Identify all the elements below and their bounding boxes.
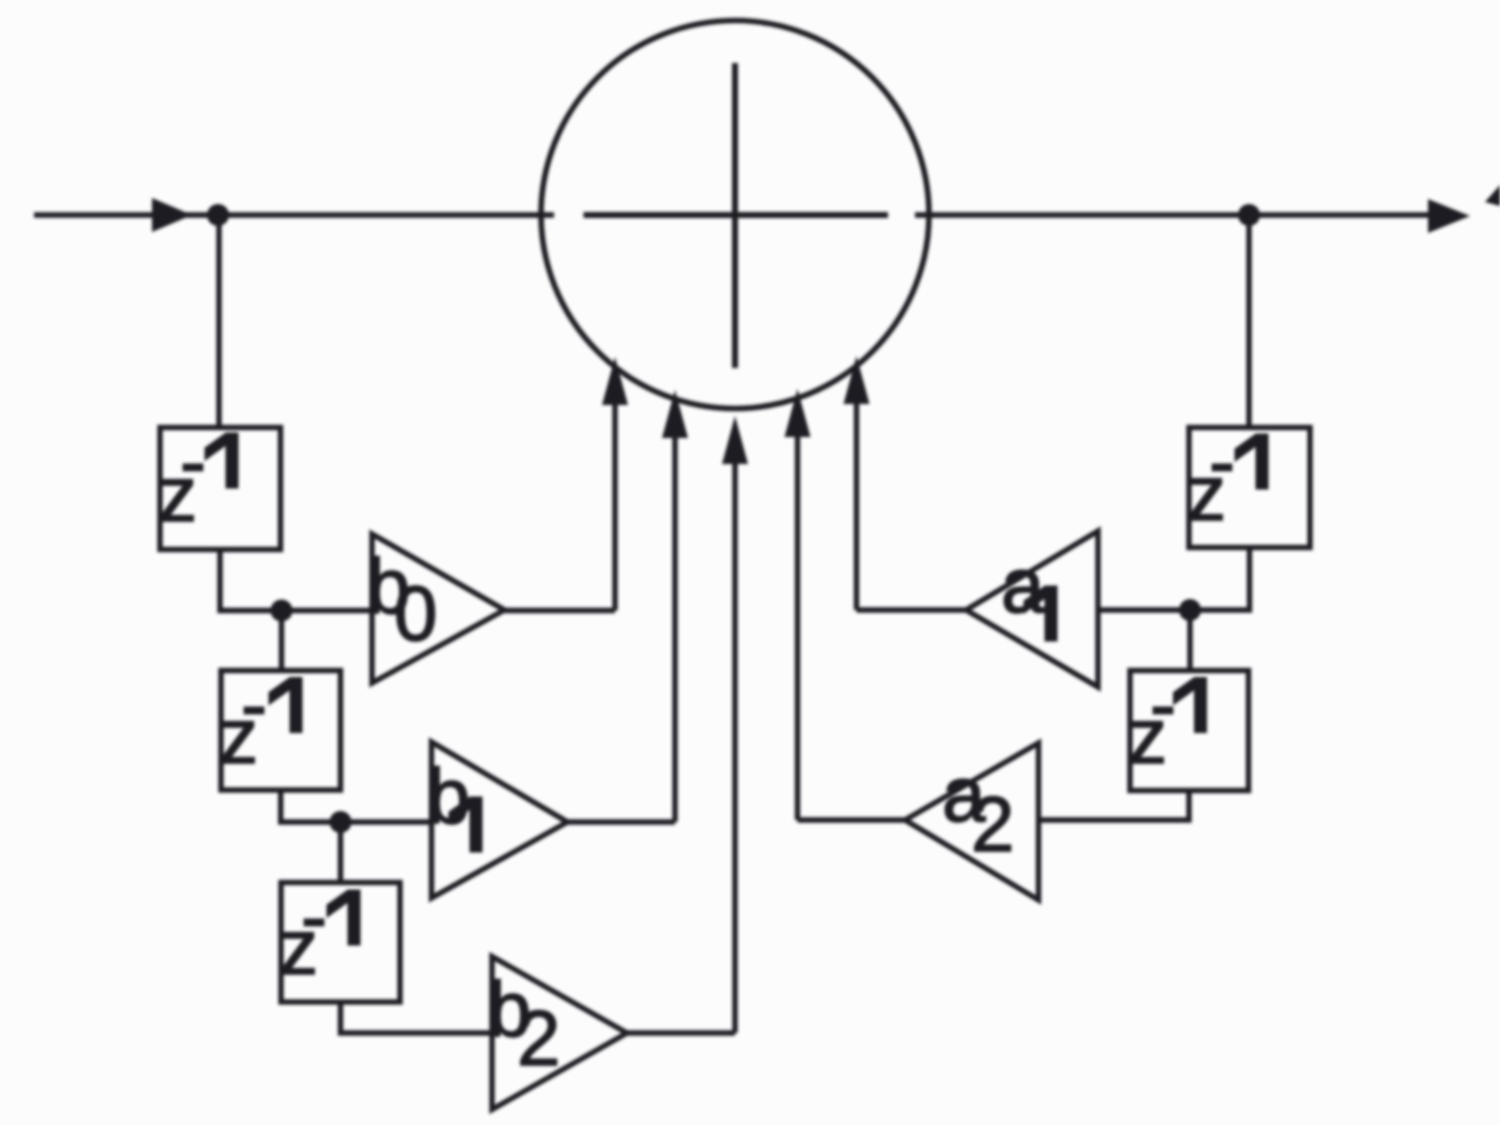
wire a1 to summer riser [857, 399, 967, 610]
svg-text:2: 2 [517, 994, 560, 1082]
delay z^-1 left 2 box [221, 671, 341, 791]
node output branch dot [1238, 204, 1260, 226]
gain b2 triangle [492, 957, 627, 1110]
arrowhead b1 into summer [662, 390, 688, 438]
wire left tap 2 to delay 3 [338, 822, 343, 883]
label b0 [367, 542, 437, 657]
gain b0 triangle [372, 534, 505, 683]
label z^-1 right 2 [1128, 660, 1207, 780]
svg-text:-: - [241, 660, 267, 748]
label z^-1 left 3 [279, 872, 360, 991]
wire b2 to summer riser [627, 458, 735, 1033]
wire node to right delay 1 [1246, 215, 1251, 428]
label b2 [488, 965, 560, 1082]
svg-text:-: - [301, 872, 327, 960]
label a2 [942, 750, 1014, 868]
delay z^-1 left 3 box [281, 883, 400, 1003]
svg-text:-: - [180, 417, 206, 505]
node input branch dot [207, 204, 229, 226]
wire right delay 1 output [1098, 548, 1250, 611]
wire right delay 2 output [1039, 791, 1190, 821]
svg-text:-: - [1150, 660, 1176, 748]
svg-text:2: 2 [971, 780, 1014, 868]
svg-text:a: a [1001, 541, 1045, 629]
gain a1 triangle [966, 531, 1098, 687]
svg-text:-: - [1209, 417, 1235, 505]
node left tap 2 dot [330, 811, 352, 833]
wire output main line right segment [915, 212, 1432, 217]
summing junction circle [541, 21, 929, 409]
wire right tap to delay 2 [1187, 610, 1192, 671]
wire b0 to summer riser [505, 399, 616, 611]
gain b1 triangle [432, 742, 568, 898]
delay z^-1 right 2 box [1130, 671, 1249, 791]
wire input x[n] main line left segment [34, 212, 554, 217]
wire left delay 1 output [220, 550, 372, 611]
arrowhead a1 into summer [844, 356, 870, 404]
wire b1 to summer riser [568, 432, 676, 822]
node right tap dot [1179, 599, 1201, 621]
label z^-1 left 2 [219, 660, 302, 780]
label a1 [1001, 541, 1057, 641]
wire left tap 1 to delay 2 [279, 611, 284, 671]
svg-text:b: b [427, 752, 470, 840]
wire left delay 3 output [341, 1002, 493, 1033]
label b1 [427, 752, 482, 852]
delay z^-1 left 1 box [160, 428, 281, 550]
arrowhead a2 into summer [785, 389, 811, 437]
delay z^-1 right 1 box [1189, 428, 1310, 548]
label z^-1 left 1 [158, 417, 238, 538]
wire a2 to summer riser [798, 437, 906, 820]
wire left delay 2 output [281, 790, 432, 822]
svg-text:0: 0 [394, 569, 437, 657]
summing junction plus vertical [732, 63, 738, 368]
node left tap 1 dot [271, 600, 293, 622]
output label y fragment at right edge [1485, 185, 1500, 206]
label z^-1 right 1 [1187, 417, 1268, 537]
gain a2 triangle [905, 743, 1039, 900]
input arrowhead mid-line [152, 198, 192, 232]
summing junction plus horizontal [584, 212, 889, 218]
arrowhead b0 into summer [602, 357, 628, 405]
output arrowhead [1428, 199, 1470, 233]
arrowhead b2 into summer [722, 416, 748, 464]
wire node to left delay 1 [216, 215, 221, 428]
